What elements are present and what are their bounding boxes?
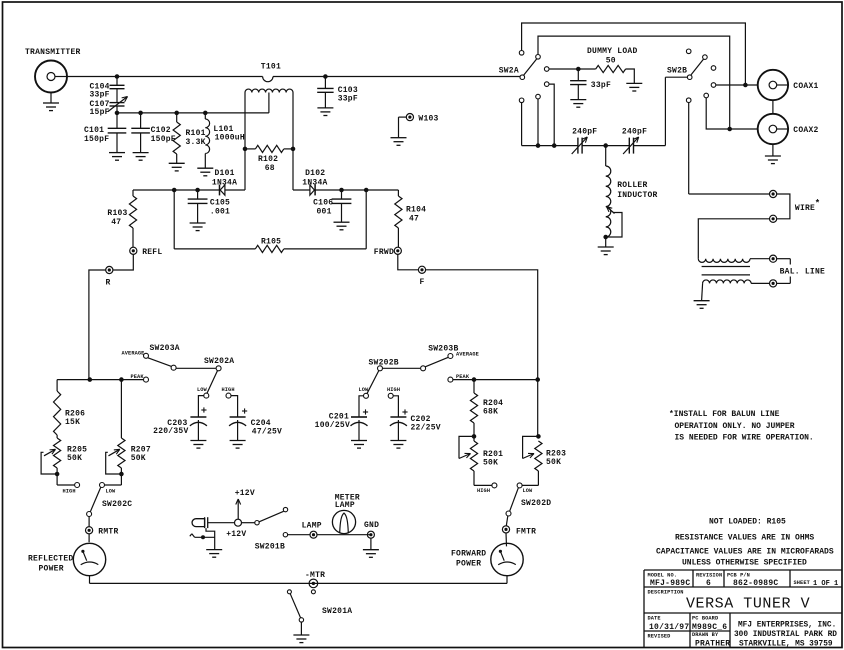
svg-text:UNLESS OTHERWISE SPECIFIED: UNLESS OTHERWISE SPECIFIED xyxy=(682,559,807,568)
svg-text:W103: W103 xyxy=(418,115,438,124)
svg-text:REFLECTED: REFLECTED xyxy=(28,555,73,564)
svg-text:+12V: +12V xyxy=(235,489,255,498)
svg-text:DESCRIPTION: DESCRIPTION xyxy=(648,590,684,596)
svg-text:68K: 68K xyxy=(483,408,498,417)
svg-text:SW202B: SW202B xyxy=(369,359,399,368)
svg-text:68: 68 xyxy=(265,164,275,173)
svg-text:1000uH: 1000uH xyxy=(215,134,245,143)
svg-text:33pF: 33pF xyxy=(90,91,110,100)
svg-text:DATE: DATE xyxy=(648,616,661,622)
svg-text:MFJ ENTERPRISES, INC.: MFJ ENTERPRISES, INC. xyxy=(738,622,836,630)
svg-text:SW2B: SW2B xyxy=(667,67,687,76)
svg-text:862-0989C: 862-0989C xyxy=(733,579,778,588)
svg-text:47/25V: 47/25V xyxy=(252,428,282,437)
svg-text:220/35V: 220/35V xyxy=(153,427,188,436)
svg-text:HIGH: HIGH xyxy=(63,489,76,495)
svg-text:AVERAGE: AVERAGE xyxy=(456,352,479,358)
svg-text:SW203B: SW203B xyxy=(428,345,458,354)
svg-text:50K: 50K xyxy=(483,459,498,468)
svg-text:HIGH: HIGH xyxy=(222,387,235,393)
svg-text:50K: 50K xyxy=(131,454,146,463)
svg-text:IS NEEDED FOR WIRE OPERATION.: IS NEEDED FOR WIRE OPERATION. xyxy=(675,434,814,443)
svg-text:1 OF 1: 1 OF 1 xyxy=(813,580,838,588)
svg-text:150pF: 150pF xyxy=(151,135,176,144)
svg-text:R103: R103 xyxy=(107,209,127,218)
svg-text:1N34A: 1N34A xyxy=(302,178,327,187)
svg-text:WIRE: WIRE xyxy=(795,204,815,213)
svg-text:10/31/97: 10/31/97 xyxy=(649,623,689,632)
svg-text:C102: C102 xyxy=(151,126,171,135)
svg-text:MFJ-989C: MFJ-989C xyxy=(650,579,690,588)
svg-text:M989C_6: M989C_6 xyxy=(692,623,727,632)
svg-text:240pF: 240pF xyxy=(622,128,647,137)
svg-text:15K: 15K xyxy=(65,418,80,427)
svg-text:R101: R101 xyxy=(186,129,206,138)
svg-text:POWER: POWER xyxy=(39,565,64,574)
svg-text:300 INDUSTRIAL PARK RD: 300 INDUSTRIAL PARK RD xyxy=(734,631,837,639)
svg-text:SHEET: SHEET xyxy=(794,580,811,586)
svg-text:RMTR: RMTR xyxy=(98,528,118,537)
svg-text:R105: R105 xyxy=(261,238,281,247)
svg-text:LOW: LOW xyxy=(197,387,208,393)
svg-text:*INSTALL FOR BALUN LINE: *INSTALL FOR BALUN LINE xyxy=(669,410,780,419)
svg-text:47: 47 xyxy=(111,218,121,227)
svg-text:DRAWN BY: DRAWN BY xyxy=(692,632,719,638)
svg-text:33pF: 33pF xyxy=(338,95,358,104)
svg-text:HIGH: HIGH xyxy=(387,387,400,393)
svg-text:150pF: 150pF xyxy=(84,135,109,144)
svg-text:FORWARD: FORWARD xyxy=(451,550,486,559)
svg-text:SW203A: SW203A xyxy=(150,344,180,353)
svg-text:REVISED: REVISED xyxy=(648,634,671,640)
svg-text:D101: D101 xyxy=(215,169,235,178)
svg-text:COAX2: COAX2 xyxy=(793,126,818,135)
svg-text:100/25V: 100/25V xyxy=(315,421,350,430)
svg-text:FMTR: FMTR xyxy=(516,528,536,537)
svg-text:C101: C101 xyxy=(84,126,104,135)
svg-text:VERSA TUNER V: VERSA TUNER V xyxy=(686,596,810,613)
svg-text:NOT LOADED: R105: NOT LOADED: R105 xyxy=(709,518,786,527)
svg-text:SW202A: SW202A xyxy=(204,357,234,366)
svg-text:SW202D: SW202D xyxy=(521,499,551,508)
svg-text:FRWD: FRWD xyxy=(374,248,394,257)
svg-text:C105: C105 xyxy=(210,199,230,208)
svg-text:RESISTANCE VALUES ARE IN OHMS: RESISTANCE VALUES ARE IN OHMS xyxy=(675,534,814,543)
svg-text:47: 47 xyxy=(409,215,419,224)
svg-text:REFL: REFL xyxy=(142,248,162,257)
svg-text:50K: 50K xyxy=(546,458,561,467)
svg-text:PEAK: PEAK xyxy=(131,374,145,380)
svg-text:LOW: LOW xyxy=(359,387,370,393)
svg-text:PCB P/N: PCB P/N xyxy=(727,573,750,579)
svg-text:D102: D102 xyxy=(305,169,325,178)
svg-text:-MTR: -MTR xyxy=(305,571,325,580)
svg-text:TRANSMITTER: TRANSMITTER xyxy=(25,48,81,57)
svg-text:OPERATION ONLY. NO JUMPER: OPERATION ONLY. NO JUMPER xyxy=(675,422,795,431)
svg-text:LAMP: LAMP xyxy=(302,522,322,531)
svg-text:22/25V: 22/25V xyxy=(411,424,441,433)
svg-text:R104: R104 xyxy=(406,206,426,215)
svg-text:33pF: 33pF xyxy=(591,81,611,90)
svg-text:CAPACITANCE VALUES ARE IN MICR: CAPACITANCE VALUES ARE IN MICROFARADS xyxy=(656,548,834,557)
svg-text:GND: GND xyxy=(364,521,379,530)
svg-text:R102: R102 xyxy=(258,155,278,164)
svg-text:BAL. LINE: BAL. LINE xyxy=(780,268,825,277)
svg-text:240pF: 240pF xyxy=(572,128,597,137)
svg-text:50: 50 xyxy=(606,57,616,66)
svg-text:POWER: POWER xyxy=(456,560,481,569)
svg-text:REVISION: REVISION xyxy=(696,573,722,579)
svg-text:F: F xyxy=(420,278,425,287)
svg-text:INDUCTOR: INDUCTOR xyxy=(617,191,657,200)
svg-text:LOW: LOW xyxy=(106,489,117,495)
svg-text:001: 001 xyxy=(317,208,332,217)
svg-text:MODEL NO.: MODEL NO. xyxy=(648,573,678,579)
svg-text:3.3K: 3.3K xyxy=(186,138,206,147)
svg-text:SW201A: SW201A xyxy=(322,607,352,616)
svg-text:ROLLER: ROLLER xyxy=(617,181,647,190)
svg-text:R: R xyxy=(106,279,111,288)
svg-text:LAMP: LAMP xyxy=(335,501,355,510)
svg-text:C106: C106 xyxy=(313,199,333,208)
svg-text:PC BOARD: PC BOARD xyxy=(692,616,718,622)
svg-text:50K: 50K xyxy=(67,454,82,463)
svg-text:LOW: LOW xyxy=(523,488,534,494)
svg-text:1N34A: 1N34A xyxy=(212,178,237,187)
svg-text:DUMMY LOAD: DUMMY LOAD xyxy=(587,47,638,56)
svg-text:STARKVILLE, MS 39759: STARKVILLE, MS 39759 xyxy=(739,641,833,649)
svg-text:15pF: 15pF xyxy=(90,108,110,117)
svg-text:AVERAGE: AVERAGE xyxy=(122,351,145,357)
svg-text:+12V: +12V xyxy=(226,530,246,539)
svg-text:*: * xyxy=(815,199,821,209)
svg-text:SW201B: SW201B xyxy=(255,543,285,552)
svg-text:6: 6 xyxy=(706,579,711,588)
svg-text:HIGH: HIGH xyxy=(477,488,490,494)
svg-text:SW202C: SW202C xyxy=(102,500,132,509)
svg-text:COAX1: COAX1 xyxy=(793,82,818,91)
svg-text:SW2A: SW2A xyxy=(499,67,519,76)
svg-text:.001: .001 xyxy=(210,208,230,217)
svg-text:T101: T101 xyxy=(261,63,281,72)
svg-text:PRATHER: PRATHER xyxy=(695,640,730,649)
